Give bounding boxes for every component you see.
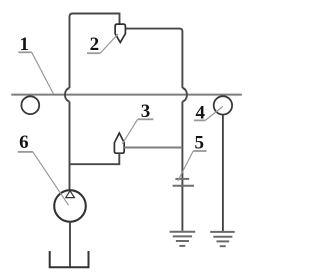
svg-text:2: 2 <box>90 34 100 55</box>
label 2 leader <box>100 34 118 53</box>
label 4 underline <box>194 119 205 121</box>
wire right vertical to ground <box>181 102 183 231</box>
wire left hop over pipe <box>65 88 70 102</box>
label 1 underline <box>18 51 31 53</box>
label 5 leader <box>178 151 193 181</box>
wire right hop over pipe <box>182 88 187 102</box>
capacitor C5 top plate <box>175 178 189 180</box>
pump 6 triangle <box>66 191 75 198</box>
roller circle 1 <box>21 96 39 114</box>
label 5 underline <box>193 150 206 152</box>
wire left vertical to pump <box>69 102 71 191</box>
wire circle4 down to ground <box>222 115 224 231</box>
label 4 leader <box>205 107 223 121</box>
wire nozzle3 stem and bottom horizontal <box>70 153 120 164</box>
capacitor C5 bottom plate <box>173 185 194 187</box>
tank <box>50 251 89 267</box>
label 3 underline <box>138 118 154 120</box>
label 2 underline <box>87 52 100 54</box>
main horizontal pipe line <box>11 94 242 96</box>
label 6 underline <box>18 151 33 153</box>
wire nozzle2 to right vertical <box>125 29 182 88</box>
nozzle 3 (up-pointing) <box>114 133 124 153</box>
roller circle 4 <box>214 96 232 114</box>
svg-text:6: 6 <box>19 132 29 153</box>
ground right <box>210 232 235 246</box>
wire nozzle3 tap to right vertical <box>124 147 182 149</box>
wire pump to tank <box>69 222 71 267</box>
label 6 leader <box>33 152 69 205</box>
nozzle 2 (down-pointing) <box>115 24 125 42</box>
ground left <box>170 232 196 246</box>
label 1 leader <box>32 52 54 94</box>
wire left loop top <box>70 14 120 89</box>
pump 6 circle <box>54 190 86 222</box>
label 3 leader <box>122 119 137 144</box>
